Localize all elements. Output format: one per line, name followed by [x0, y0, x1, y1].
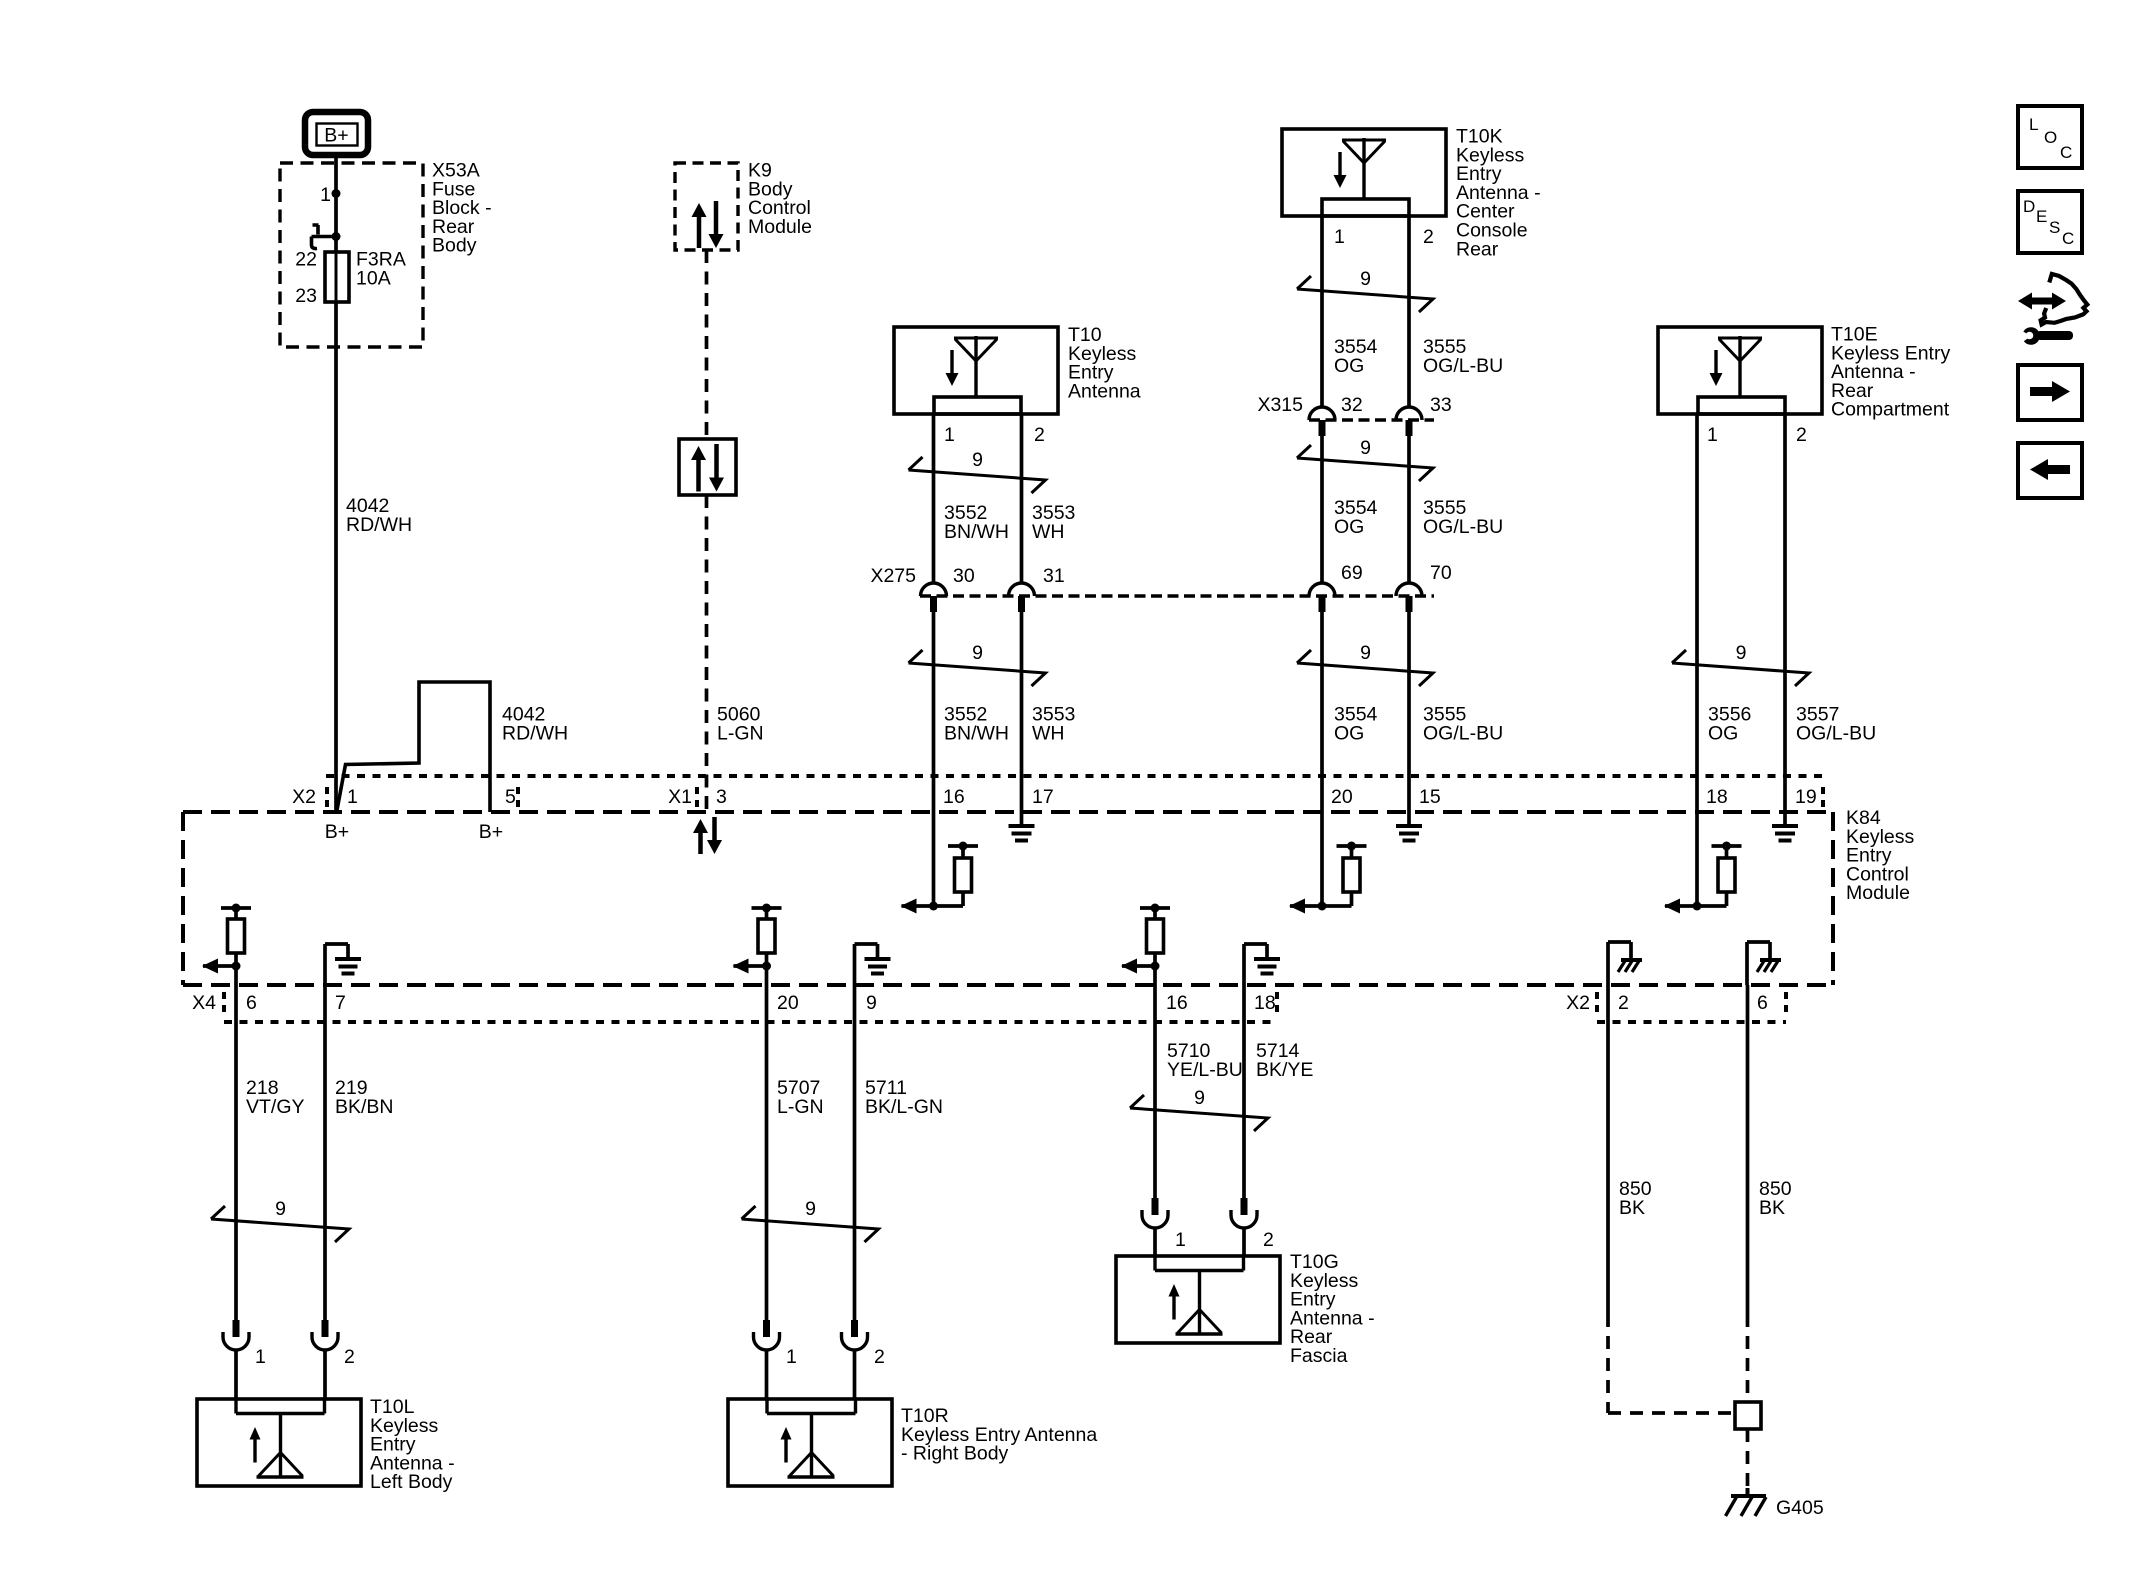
K84 bottom connector row dotted line (X2 group) — [1597, 1020, 1786, 1024]
fuse F3RA 10A — [325, 252, 349, 302]
wire 3554 into module to terminating resistor — [1320, 776, 1324, 906]
svg-text:9: 9 — [275, 1198, 286, 1220]
antenna T10K Keyless Entry Antenna - Center Console Rear box — [1282, 129, 1446, 216]
svg-text:1: 1 — [255, 1346, 266, 1368]
wire 218 VT/GY K84 X4-6 to connector — [234, 966, 238, 1320]
svg-text:L: L — [2029, 115, 2038, 134]
svg-text:23: 23 — [295, 285, 317, 307]
svg-text:Compartment: Compartment — [1831, 399, 1950, 421]
power terminal B+ — [305, 112, 368, 155]
ground symbol above pin 9 (5711) — [853, 944, 857, 985]
twisted pair symbol (3554/3555 lower) — [1297, 650, 1433, 686]
inline connector terminal 1 (T10L) — [233, 1320, 240, 1337]
svg-text:L-GN: L-GN — [717, 722, 764, 744]
svg-text:30: 30 — [953, 565, 975, 587]
wire 3555 OG/L-BU X315 to X275 row — [1407, 436, 1411, 583]
svg-text:1: 1 — [1175, 1229, 1186, 1251]
svg-text:9: 9 — [866, 992, 877, 1014]
K9 bidirectional serial data arrows — [697, 215, 702, 248]
svg-text:G405: G405 — [1776, 1497, 1824, 1519]
chassis ground above X2 pin 2 — [1606, 942, 1610, 985]
dashed lead to ground G405 — [1746, 1429, 1750, 1494]
svg-text:9: 9 — [1736, 642, 1747, 664]
svg-text:70: 70 — [1430, 562, 1452, 584]
wire 5710 to T10G pin 1 — [1153, 1228, 1157, 1256]
wire 3557 OG/L-BU T10E pin 2 to K84 pin 19 — [1783, 414, 1787, 776]
svg-text:BK/L-GN: BK/L-GN — [865, 1096, 943, 1118]
fuse clip symbol — [312, 225, 334, 249]
wire 3556 OG T10E pin 1 to K84 pin 18 — [1695, 414, 1699, 776]
svg-text:S: S — [2049, 218, 2060, 237]
wire B+ into fuse block — [334, 155, 338, 253]
wire 4042 RD/WH branch to X2 pin 5 — [337, 682, 490, 812]
connector X275 terminal 69 — [1309, 583, 1335, 596]
icon LOC box — [2018, 106, 2082, 168]
svg-text:1: 1 — [786, 1346, 797, 1368]
svg-text:9: 9 — [805, 1198, 816, 1220]
svg-text:C: C — [2062, 229, 2074, 248]
svg-text:9: 9 — [1194, 1087, 1205, 1109]
inline connector terminal 1 (T10G) — [1152, 1198, 1159, 1215]
wire 850 BK dashed continuation (left) — [1606, 1314, 1610, 1413]
wire 5710 YE/L-BU K84 pin 16 to connector — [1153, 966, 1157, 1198]
antenna T10E Keyless Entry Antenna - Rear Compartment box — [1658, 327, 1822, 414]
wire 5711 BK/L-GN K84 pin 9 to connector — [853, 985, 857, 1320]
svg-text:WH: WH — [1032, 521, 1065, 543]
connector X315 terminal 32 — [1309, 407, 1335, 420]
ground symbol above X4 pin 7 (219) — [323, 944, 327, 985]
ground symbol (3557) inside K84 — [1783, 776, 1787, 812]
svg-text:YE/L-BU: YE/L-BU — [1167, 1059, 1243, 1081]
twisted pair symbol (3552/3553 upper) — [909, 457, 1046, 493]
svg-text:1: 1 — [1334, 226, 1345, 248]
svg-text:9: 9 — [972, 642, 983, 664]
connector X315 terminal 33 — [1396, 407, 1422, 420]
svg-text:O: O — [2044, 128, 2057, 147]
svg-text:B+: B+ — [479, 821, 503, 843]
wire 4042 RD/WH fuse to K84 X2 pin 1 — [334, 302, 338, 812]
svg-text:OG: OG — [1334, 355, 1364, 377]
inline connector terminal 2 (T10R) — [851, 1320, 858, 1337]
svg-text:BK/YE: BK/YE — [1256, 1059, 1313, 1081]
ground symbol above pin 18 (5714) — [1242, 944, 1246, 985]
wire 3556 into module to terminating resistor — [1695, 776, 1699, 906]
wire 5714 BK/YE K84 pin 18 to connector — [1242, 985, 1246, 1198]
svg-text:OG/L-BU: OG/L-BU — [1423, 516, 1503, 538]
svg-text:9: 9 — [1360, 268, 1371, 290]
svg-text:31: 31 — [1043, 565, 1065, 587]
wire 3554 OG to K84 pin 20 — [1320, 612, 1324, 776]
wire 850 BK from K84 X2 pin 2 — [1606, 985, 1610, 1314]
antenna T10R Keyless Entry Antenna - Right Body box — [728, 1399, 892, 1486]
svg-text:9: 9 — [972, 449, 983, 471]
connector X1 left tick — [695, 787, 699, 807]
svg-text:69: 69 — [1341, 562, 1363, 584]
connector X275 terminal 30 — [921, 583, 947, 596]
svg-text:Body: Body — [432, 235, 477, 257]
ground symbol (3555) inside K84 — [1407, 776, 1411, 812]
connector X2 (bottom) left tick — [1595, 992, 1599, 1012]
inline connector terminal 2 (T10G) — [1241, 1198, 1248, 1215]
chassis ground above X2 pin 6 — [1745, 942, 1749, 985]
svg-text:3: 3 — [716, 786, 727, 808]
ground G405 chassis symbol — [1731, 1494, 1766, 1498]
svg-text:BN/WH: BN/WH — [944, 722, 1009, 744]
connector X1 right tick — [1821, 787, 1825, 807]
svg-text:OG: OG — [1334, 516, 1364, 538]
svg-text:9: 9 — [1360, 642, 1371, 664]
svg-text:32: 32 — [1341, 394, 1363, 416]
svg-text:2: 2 — [1796, 424, 1807, 446]
svg-text:X1: X1 — [668, 786, 692, 808]
svg-text:Fascia: Fascia — [1290, 1345, 1348, 1367]
inline connector X275 dashed line — [920, 594, 1434, 598]
twisted pair symbol (3554/3555 top) — [1297, 276, 1433, 312]
svg-text:17: 17 — [1032, 786, 1054, 808]
twisted pair symbol (3556/3557) — [1672, 650, 1809, 686]
svg-text:18: 18 — [1706, 786, 1728, 808]
wire 3552 BN/WH T10 pin 1 to X275 — [932, 414, 936, 583]
antenna T10G Keyless Entry Antenna - Rear Fascia box — [1116, 1256, 1280, 1343]
wire 3553 WH X275 to K84 pin 17 — [1020, 612, 1024, 776]
svg-text:1: 1 — [1707, 424, 1718, 446]
svg-text:1: 1 — [320, 184, 331, 206]
antenna T10L Keyless Entry Antenna - Left Body box — [197, 1399, 361, 1486]
svg-text:16: 16 — [943, 786, 965, 808]
svg-text:C: C — [2060, 143, 2072, 162]
svg-text:OG: OG — [1708, 722, 1738, 744]
svg-text:18: 18 — [1254, 992, 1276, 1014]
splice pack junction square — [1735, 1402, 1761, 1429]
wire 3554 OG X315 to X275 row — [1320, 436, 1324, 583]
svg-text:Left Body: Left Body — [370, 1471, 453, 1493]
icon next page (right arrow) box — [2018, 365, 2082, 420]
wire 219 to T10L pin 2 — [323, 1350, 327, 1399]
svg-text:B+: B+ — [325, 821, 349, 843]
svg-text:OG/L-BU: OG/L-BU — [1423, 355, 1503, 377]
svg-text:BK: BK — [1619, 1197, 1645, 1219]
wire 5707 L-GN K84 pin 20 to connector — [765, 966, 769, 1320]
drive resistor + arrow above pin 20 (5707) — [752, 906, 782, 910]
node 1 junction — [332, 189, 341, 198]
connector X4 left tick — [222, 992, 226, 1012]
K84 top connector row dotted line — [326, 774, 1823, 778]
svg-text:RD/WH: RD/WH — [346, 514, 412, 536]
module K9 Body Control Module dashed box — [675, 163, 738, 250]
wire 5707 to T10R pin 1 — [765, 1350, 769, 1399]
ground symbol (3553) inside K84 — [1020, 776, 1024, 812]
twisted pair symbol (3552/3553 lower) — [909, 650, 1046, 686]
fuse block X53A dashed box — [280, 163, 423, 347]
wire 5060 L-GN serial data (dashed) K9 to symbol box — [705, 250, 709, 440]
inline connector terminal 1 (T10R) — [763, 1320, 770, 1337]
svg-text:WH: WH — [1032, 722, 1065, 744]
svg-text:10A: 10A — [356, 267, 391, 289]
wire 850 BK dashed continuation (right) — [1746, 1314, 1750, 1402]
svg-text:RD/WH: RD/WH — [502, 722, 568, 744]
connector X2 right tick — [516, 787, 520, 807]
inline connector X315 dashed line — [1309, 418, 1434, 422]
svg-text:BK: BK — [1759, 1197, 1785, 1219]
terminating resistor + receive arrow (3556) — [1665, 904, 1727, 908]
connector X2 (bottom) right tick — [1784, 992, 1788, 1012]
svg-text:D: D — [2023, 197, 2035, 216]
svg-text:OG/L-BU: OG/L-BU — [1423, 722, 1503, 744]
icon harness routing (double arrow, outline, wrench) — [2029, 298, 2053, 305]
wire 3552 into module to terminating resistor — [932, 776, 936, 906]
svg-text:VT/GY: VT/GY — [246, 1096, 305, 1118]
svg-text:X315: X315 — [1257, 394, 1303, 416]
svg-text:Rear: Rear — [1456, 238, 1499, 260]
connector X275 terminal 31 — [1009, 583, 1035, 596]
terminating resistor + receive arrow (3552) — [902, 904, 964, 908]
svg-text:2: 2 — [874, 1346, 885, 1368]
svg-text:6: 6 — [246, 992, 257, 1014]
wire 5060 L-GN serial data (dashed) to K84 X1 pin 3 — [705, 495, 709, 812]
svg-text:Module: Module — [748, 216, 812, 238]
svg-text:22: 22 — [295, 249, 317, 271]
wire 3555 OG/L-BU T10K pin 2 to X315 — [1407, 216, 1411, 407]
wire 218 to T10L pin 1 — [234, 1350, 238, 1399]
svg-text:Antenna: Antenna — [1068, 380, 1141, 402]
connector X4 right tick — [1275, 992, 1279, 1012]
drive resistor + arrow above X4 pin 6 (218) — [221, 906, 251, 910]
svg-text:5: 5 — [505, 786, 516, 808]
svg-text:7: 7 — [335, 992, 346, 1014]
svg-text:OG: OG — [1334, 722, 1364, 744]
K84 module boundary (dashed box) — [183, 810, 1833, 814]
icon DESC box — [2018, 191, 2082, 253]
svg-text:2: 2 — [1423, 226, 1434, 248]
svg-text:16: 16 — [1166, 992, 1188, 1014]
wire 219 BK/BN K84 X4-7 to connector — [323, 985, 327, 1320]
twisted pair symbol (5710/5714) — [1130, 1095, 1268, 1131]
svg-text:X2: X2 — [1566, 992, 1590, 1014]
svg-text:Module: Module — [1846, 882, 1910, 904]
wire 3555 OG/L-BU to K84 pin 15 — [1407, 612, 1411, 776]
wire 3553 WH T10 pin 2 to X275 — [1020, 414, 1024, 583]
svg-text:1: 1 — [944, 424, 955, 446]
svg-text:2: 2 — [1263, 1229, 1274, 1251]
svg-text:20: 20 — [1331, 786, 1353, 808]
inline connector terminal 2 (T10L) — [322, 1320, 329, 1337]
K84 bottom connector row dotted line (X4 group) — [224, 1020, 1277, 1024]
twisted pair symbol (3554/3555 middle) — [1297, 445, 1433, 481]
drive resistor + arrow above pin 16 (5710) — [1140, 906, 1170, 910]
svg-text:B+: B+ — [324, 125, 348, 147]
svg-text:X275: X275 — [870, 565, 916, 587]
svg-text:E: E — [2036, 207, 2047, 226]
svg-text:OG/L-BU: OG/L-BU — [1796, 722, 1876, 744]
wire 850 BK from K84 X2 pin 6 — [1746, 985, 1750, 1314]
svg-text:33: 33 — [1430, 394, 1452, 416]
svg-text:- Right Body: - Right Body — [901, 1443, 1009, 1465]
icon previous page (left arrow) box — [2018, 443, 2082, 498]
antenna T10 Keyless Entry Antenna box — [894, 327, 1058, 414]
twisted pair symbol (5707/5711) — [742, 1206, 879, 1242]
svg-text:9: 9 — [1360, 437, 1371, 459]
svg-text:1: 1 — [347, 786, 358, 808]
svg-text:X2: X2 — [292, 786, 316, 808]
serial data symbol box — [679, 439, 736, 495]
svg-text:BN/WH: BN/WH — [944, 521, 1009, 543]
svg-text:L-GN: L-GN — [777, 1096, 824, 1118]
svg-text:2: 2 — [1034, 424, 1045, 446]
connector X2 left tick — [325, 787, 329, 807]
svg-text:15: 15 — [1419, 786, 1441, 808]
wire 3554 OG T10K pin 1 to X315 — [1320, 216, 1324, 407]
svg-text:2: 2 — [1618, 992, 1629, 1014]
svg-text:19: 19 — [1795, 786, 1817, 808]
svg-text:2: 2 — [344, 1346, 355, 1368]
wire 5714 to T10G pin 2 — [1242, 1228, 1246, 1256]
wire 3552 BN/WH X275 to K84 pin 16 — [932, 612, 936, 776]
terminating resistor + receive arrow (3554) — [1290, 904, 1352, 908]
wire 5711 to T10R pin 2 — [853, 1350, 857, 1399]
svg-text:X4: X4 — [192, 992, 216, 1014]
svg-text:6: 6 — [1757, 992, 1768, 1014]
connector X275 terminal 70 — [1396, 583, 1422, 596]
serial data arrows below pin 3 — [698, 831, 703, 854]
svg-text:BK/BN: BK/BN — [335, 1096, 394, 1118]
twisted pair symbol (218/219) — [211, 1206, 349, 1242]
svg-text:20: 20 — [777, 992, 799, 1014]
